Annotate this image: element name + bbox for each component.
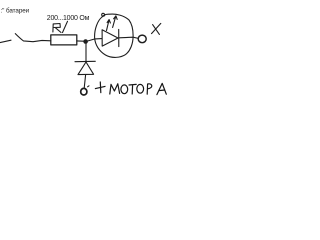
- svg-text:200...1000 Ом: 200...1000 Ом: [47, 15, 90, 22]
- svg-text::" батареи: :" батареи: [1, 6, 30, 14]
